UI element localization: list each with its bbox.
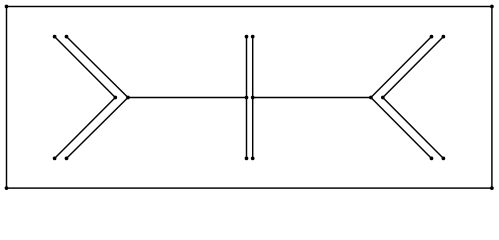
wire right branch upper outer — [371, 37, 432, 98]
terminal dot left lower inner — [53, 157, 57, 161]
capacitor C1 right plate — [252, 37, 254, 159]
junction node left outer vertex — [126, 96, 130, 100]
wire left branch upper inner — [55, 37, 116, 98]
node left plate top — [245, 35, 249, 39]
wire left branch lower outer — [67, 98, 129, 159]
node right plate top — [251, 35, 255, 39]
terminal dot left upper inner — [53, 35, 57, 39]
terminal dot right lower outer — [430, 157, 434, 161]
node left plate bottom — [245, 157, 249, 161]
wire right feed — [253, 97, 371, 99]
node bottom-left corner — [5, 186, 9, 190]
wire right branch upper inner — [383, 37, 444, 98]
terminal dot right upper outer — [430, 35, 434, 39]
wire left branch upper outer — [67, 37, 129, 98]
junction node right inner vertex — [381, 96, 385, 100]
wire left branch lower inner — [55, 98, 116, 159]
junction node right plate center — [251, 96, 255, 100]
junction node left inner vertex — [113, 96, 117, 100]
capacitor C1 left plate — [246, 37, 248, 159]
terminal dot left upper outer — [65, 35, 69, 39]
node top-left corner — [5, 5, 9, 9]
terminal dot left lower outer — [65, 157, 69, 161]
wire left feed — [128, 97, 247, 99]
terminal dot right upper inner — [442, 35, 446, 39]
border frame wires — [7, 7, 492, 189]
junction node left plate center — [245, 96, 249, 100]
wire right branch lower inner — [383, 98, 444, 159]
junction node right outer vertex — [369, 96, 373, 100]
node top-right corner — [490, 5, 494, 9]
node bottom-right corner — [490, 186, 494, 190]
node right plate bottom — [251, 157, 255, 161]
wire right branch lower outer — [371, 98, 432, 159]
terminal dot right lower inner — [442, 157, 446, 161]
